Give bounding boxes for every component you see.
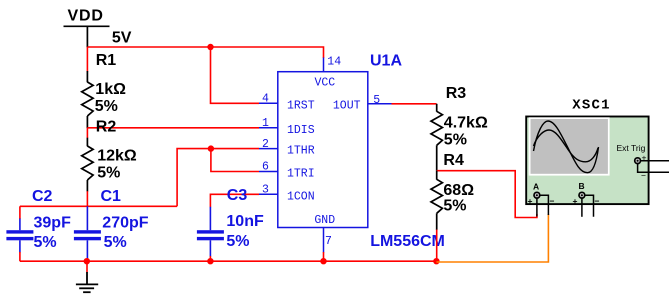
wire 5V rail: VDD to pin14: [87, 47, 323, 58]
wire orange scope A- to rail: [436, 214, 548, 262]
svg-text:R2: R2: [96, 119, 117, 136]
wire pin7 to rail: [323, 252, 325, 261]
svg-text:1THR: 1THR: [287, 145, 315, 158]
svg-text:−: −: [550, 196, 555, 206]
svg-text:12kΩ: 12kΩ: [97, 148, 137, 165]
svg-text:14: 14: [327, 56, 341, 69]
svg-text:C3: C3: [227, 187, 248, 204]
svg-text:+: +: [573, 196, 578, 206]
pin 2 1THR lead: [259, 148, 278, 150]
svg-text:−: −: [595, 196, 600, 206]
svg-text:5%: 5%: [226, 233, 249, 250]
terminal A: [528, 182, 555, 217]
svg-text:A: A: [533, 182, 539, 192]
svg-text:7: 7: [325, 235, 332, 248]
wire ground stub: [86, 261, 88, 272]
svg-text:R4: R4: [443, 152, 464, 169]
svg-text:5%: 5%: [104, 234, 127, 251]
wire 1THR to 1TRI jog: [211, 149, 259, 172]
svg-text:10nF: 10nF: [226, 213, 264, 230]
terminal Ext Trig: [635, 153, 669, 181]
pin 7 GND lead: [323, 228, 325, 253]
svg-text:1DIS: 1DIS: [287, 124, 315, 137]
svg-text:U1A: U1A: [370, 52, 402, 69]
svg-text:4.7kΩ: 4.7kΩ: [444, 115, 488, 132]
svg-text:39pF: 39pF: [34, 215, 72, 232]
pin 1 1DIS lead: [259, 127, 278, 129]
oscilloscope XSC1: [526, 117, 648, 205]
resistor R4: [431, 171, 442, 230]
svg-text:−: −: [641, 171, 646, 181]
svg-text:1CON: 1CON: [287, 190, 315, 203]
svg-text:1RST: 1RST: [287, 99, 315, 112]
pin 3 1CON lead: [259, 193, 278, 195]
svg-text:1: 1: [262, 117, 269, 130]
svg-text:5%: 5%: [95, 98, 118, 115]
wire R1/R2 node down: [86, 128, 88, 138]
wire 1OUT to R3: [392, 103, 437, 105]
svg-text:+: +: [528, 196, 533, 206]
wire ground rail: [20, 260, 437, 262]
svg-text:R3: R3: [446, 85, 467, 102]
svg-text:C2: C2: [32, 188, 53, 205]
svg-text:5%: 5%: [97, 165, 120, 182]
wire C2 bottom stub: [19, 252, 21, 261]
svg-text:C1: C1: [101, 188, 122, 205]
svg-text:5: 5: [373, 94, 380, 107]
svg-text:6: 6: [262, 161, 269, 174]
svg-text:5%: 5%: [444, 132, 467, 149]
pin 6 1TRI lead: [259, 171, 278, 173]
node junction dot C3-gnd: [207, 258, 213, 264]
wire R2 bottom to C1 node: [86, 191, 88, 206]
capacitor C1: [74, 206, 101, 259]
svg-text:270pF: 270pF: [102, 215, 148, 232]
wire VDD to R1 top: [86, 47, 88, 72]
wire R1 bottom to pin1 (1DIS): [87, 127, 259, 129]
node junction dot 1THR/1TRI: [208, 145, 214, 151]
svg-text:68Ω: 68Ω: [443, 182, 474, 199]
pin 5 1OUT lead: [368, 103, 392, 105]
node junction dot pin7-gnd: [320, 258, 326, 264]
node junction dot R4-gnd-orange: [433, 258, 439, 264]
wire C1 bottom stub: [86, 258, 88, 261]
resistor R2: [82, 138, 93, 192]
svg-text:VDD: VDD: [68, 8, 104, 25]
svg-text:1OUT: 1OUT: [333, 99, 361, 112]
wire C3 bottom stub: [209, 256, 211, 261]
op-amp U1A 556 timer box: [278, 72, 368, 228]
svg-text:5%: 5%: [34, 234, 57, 251]
terminal B: [573, 181, 600, 217]
resistor R1: [82, 71, 93, 128]
svg-text:LM556CM: LM556CM: [370, 233, 445, 250]
svg-text:1kΩ: 1kΩ: [95, 81, 126, 98]
scope trace A: [534, 121, 599, 173]
pin 14 VCC lead: [323, 58, 325, 72]
capacitor C2: [6, 219, 33, 253]
wire 1CON: pin3 to C3: [210, 194, 259, 207]
wire R3/R4 node to scope A+: [437, 171, 537, 218]
capacitor C3: [197, 207, 224, 257]
svg-text:GND: GND: [314, 214, 335, 227]
node junction dot 5V: [207, 44, 213, 50]
pin 4 1RST lead: [259, 102, 278, 104]
wire 1THR net: pin2 left, down, to cap rail: [177, 149, 259, 207]
svg-text:5V: 5V: [112, 29, 132, 46]
svg-text:VCC: VCC: [315, 77, 336, 90]
svg-text:R1: R1: [96, 52, 117, 69]
wire R4 bottom to rail: [436, 230, 438, 262]
svg-text:3: 3: [262, 184, 269, 197]
svg-text:1TRI: 1TRI: [287, 168, 315, 181]
wire cap top rail C2-C1: [20, 205, 177, 207]
power VDD symbol: [64, 26, 110, 47]
node junction dot C1-gnd: [84, 258, 90, 264]
resistor R3: [431, 104, 442, 171]
svg-text:5%: 5%: [443, 198, 466, 215]
ground: [76, 272, 98, 292]
scope trace B: [534, 130, 599, 162]
svg-text:2: 2: [262, 138, 269, 151]
svg-text:4: 4: [262, 93, 269, 106]
wire C2 top stub: [19, 206, 21, 219]
svg-text:B: B: [579, 181, 585, 191]
wire junction to pin4: [211, 47, 260, 103]
svg-text:XSC1: XSC1: [572, 97, 610, 113]
